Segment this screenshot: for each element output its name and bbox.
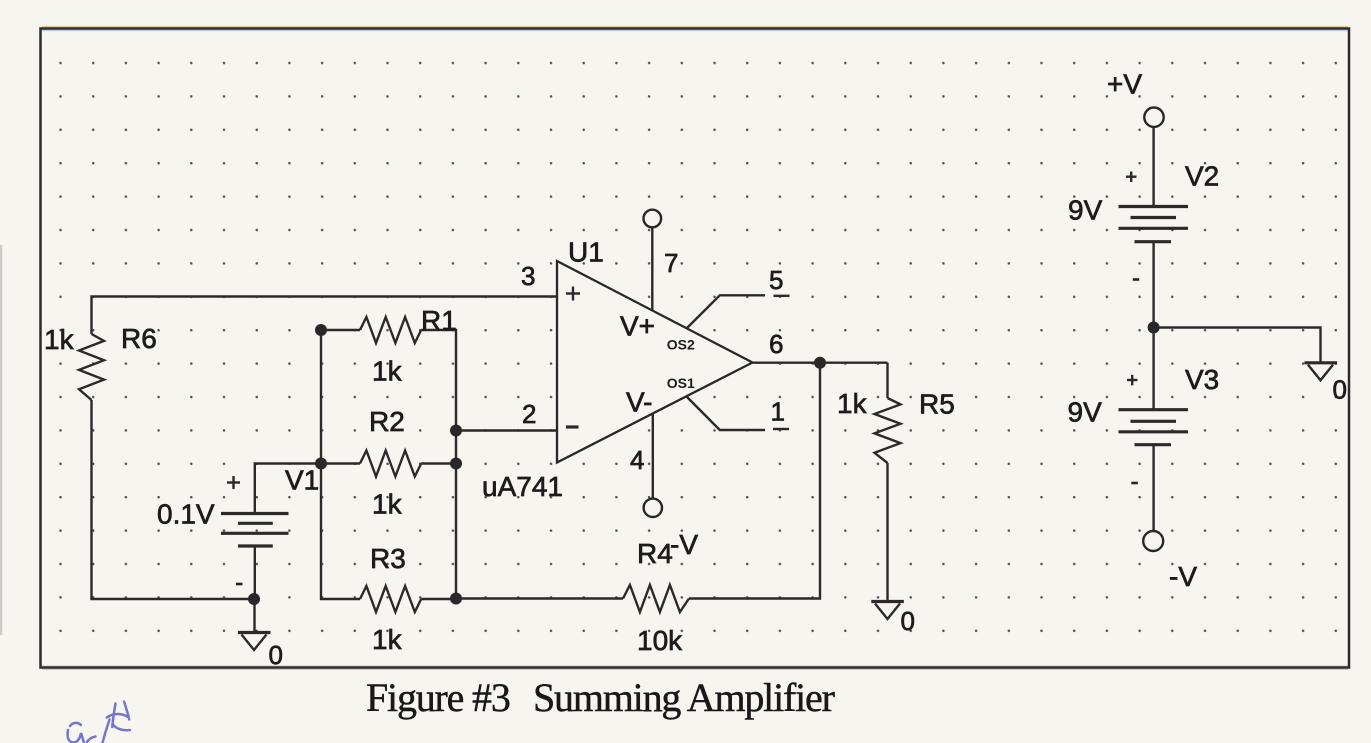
svg-text:V2: V2	[1185, 161, 1219, 192]
svg-text:6: 6	[769, 329, 783, 359]
svg-text:0.1V: 0.1V	[157, 499, 215, 530]
svg-text:R6: R6	[121, 323, 157, 354]
svg-text:1k: 1k	[372, 356, 403, 387]
svg-text:0: 0	[901, 606, 915, 636]
svg-text:U1: U1	[568, 237, 604, 268]
svg-text:1k: 1k	[44, 324, 75, 355]
svg-text:V+: V+	[620, 311, 655, 342]
svg-text:Figure #3: Figure #3	[366, 675, 510, 720]
svg-text:1k: 1k	[837, 388, 868, 419]
svg-text:R3: R3	[370, 543, 406, 574]
svg-text:V3: V3	[1185, 364, 1219, 395]
svg-text:9V: 9V	[1068, 397, 1103, 428]
svg-text:V-: V-	[626, 387, 652, 418]
svg-text:+V: +V	[1107, 69, 1142, 100]
svg-text:OS1: OS1	[667, 375, 695, 391]
svg-text:3: 3	[521, 261, 535, 291]
svg-text:R1: R1	[421, 305, 457, 336]
svg-text:2: 2	[522, 399, 536, 429]
svg-text:R2: R2	[369, 406, 405, 437]
svg-text:4: 4	[630, 445, 644, 475]
svg-text:0: 0	[1333, 375, 1347, 405]
svg-text:10k: 10k	[637, 625, 683, 656]
svg-text:uA741: uA741	[482, 471, 563, 502]
svg-text:7: 7	[664, 248, 678, 278]
svg-text:R4: R4	[637, 538, 673, 569]
svg-text:Summing Amplifier: Summing Amplifier	[533, 675, 835, 720]
svg-text:V1: V1	[285, 465, 319, 496]
svg-text:-V: -V	[670, 529, 698, 560]
svg-text:1: 1	[771, 397, 785, 427]
svg-text:0: 0	[269, 640, 283, 670]
svg-text:9V: 9V	[1068, 195, 1103, 226]
svg-text:1k: 1k	[372, 489, 403, 520]
svg-text:OS2: OS2	[667, 337, 695, 353]
svg-text:5: 5	[769, 265, 783, 295]
svg-text:1k: 1k	[372, 624, 403, 655]
svg-text:R5: R5	[919, 389, 955, 420]
svg-text:-V: -V	[1169, 561, 1197, 592]
